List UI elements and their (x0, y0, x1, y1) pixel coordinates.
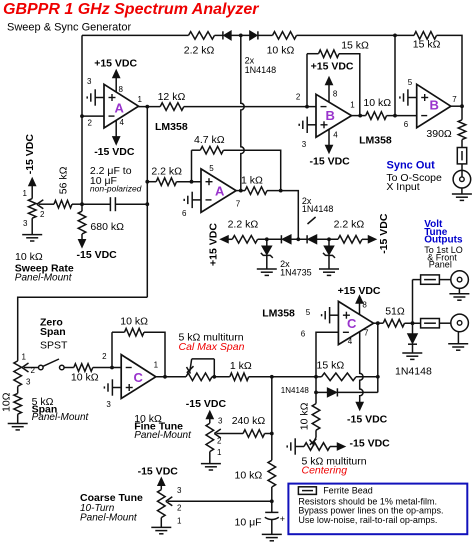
svg-text:4.7 kΩ: 4.7 kΩ (194, 134, 225, 146)
wire A1 output to 12k (139, 106, 161, 108)
wire A2 output (236, 190, 245, 192)
svg-text:6: 6 (404, 120, 409, 129)
wire 2.2k to A2 + input (147, 181, 156, 183)
svg-text:12 kΩ: 12 kΩ (158, 91, 186, 103)
ground C1 + input (sideways) (104, 379, 121, 395)
trimmer R cal 5k multiturn (186, 373, 212, 381)
wire bead to BNC (461, 164, 463, 177)
wire bead to lower BNC (439, 322, 450, 324)
svg-text:10 kΩ: 10 kΩ (235, 470, 263, 482)
wire left column from rail to op-amp A input (81, 35, 83, 204)
wire A1 inverting input stub (82, 115, 104, 117)
node A2 output (239, 189, 243, 193)
svg-text:2: 2 (31, 366, 36, 375)
node C2 output leg fb (376, 375, 380, 379)
wire coarse pot ground stub (160, 518, 162, 528)
node B2 output (460, 104, 464, 108)
resistor 10&#937; (17, 386, 19, 393)
node zener 1 tap (265, 237, 269, 241)
op-amp U3B LM358 C2 (338, 301, 373, 344)
svg-text:3: 3 (302, 140, 307, 149)
switch S1 SPST (39, 359, 65, 370)
capacitor C2 10uF polarized (265, 511, 278, 513)
wire 12k to B1 inverting input (184, 106, 316, 108)
ground zener 1 (257, 269, 277, 275)
svg-text:1N4735: 1N4735 (280, 267, 312, 277)
wire upper BNC ground stub (458, 288, 460, 293)
svg-text:LM358: LM358 (155, 121, 188, 133)
svg-text:Panel-Mount: Panel-Mount (15, 273, 73, 284)
svg-text:10Ω: 10Ω (1, 392, 13, 412)
wire centering -15 arrow (330, 443, 345, 449)
ground output diode (402, 353, 422, 359)
svg-text:2: 2 (217, 436, 222, 445)
wire B2 output down (461, 106, 463, 120)
svg-text:1N4148: 1N4148 (395, 366, 432, 378)
wire 10k to B2 inverting input (387, 115, 417, 117)
op-amp U2B LM358 B2 (417, 84, 451, 127)
wire B1 output to 10k (352, 115, 366, 117)
wire A1-output column to span pot (18, 297, 148, 361)
svg-text:-15 VDC: -15 VDC (186, 398, 227, 410)
resistor 4.7 k&#937; A2 feedback (200, 146, 223, 154)
ferrite bead legend symbol (298, 487, 316, 495)
svg-text:LM358: LM358 (359, 135, 392, 147)
wire C1 output (156, 376, 186, 378)
ground 10uF (262, 534, 282, 540)
wire 51 to out node (405, 322, 421, 324)
svg-text:C: C (134, 370, 144, 385)
resistor 2.2 k&#937; clamp left (232, 236, 257, 244)
resistor 10 k&#937; above cap (268, 460, 276, 487)
wire C2 output to 51 (374, 322, 384, 324)
svg-text:+15 VDC: +15 VDC (311, 61, 354, 73)
wire A1 +15 supply arrow (113, 71, 119, 93)
op-amp U3A LM358 C1 (121, 355, 156, 399)
ground sweep pot (22, 235, 42, 241)
wire 1N4148 pointer (308, 217, 316, 224)
wire C2 +15 supply arrow (356, 296, 362, 314)
node C1 inverting input (110, 366, 114, 370)
svg-text:10 kΩ: 10 kΩ (267, 45, 295, 57)
node cap/coarse junction (270, 499, 274, 503)
resistor 240 k&#937; (243, 430, 265, 438)
wire 390 to bead (461, 140, 463, 148)
svg-text:2: 2 (177, 504, 182, 513)
wiper fine pot (214, 429, 243, 438)
wire sweep pot -15 arrow (29, 179, 35, 199)
diode D3 1N4148 (points left) (281, 235, 290, 243)
svg-text:non-polarized: non-polarized (90, 184, 142, 194)
svg-text:5: 5 (408, 78, 413, 87)
wire diode to 10k (258, 34, 272, 36)
svg-text:+: + (280, 514, 285, 524)
wire A2 feedback left (192, 149, 201, 151)
svg-text:7: 7 (452, 95, 457, 104)
wire B1 feedback left vertical (306, 54, 308, 107)
node volt out (411, 321, 415, 325)
svg-text:3: 3 (218, 416, 223, 425)
wiper sweep pot (37, 200, 54, 209)
svg-text:15 kΩ: 15 kΩ (341, 39, 369, 51)
svg-text:GBPPR 1 GHz Spectrum Analyzer: GBPPR 1 GHz Spectrum Analyzer (3, 1, 259, 18)
wire 240k to column (265, 433, 272, 435)
svg-text:6: 6 (182, 209, 187, 218)
svg-text:-15 VDC: -15 VDC (350, 438, 391, 450)
svg-text:1: 1 (22, 353, 27, 362)
svg-text:56 kΩ: 56 kΩ (58, 166, 70, 194)
node zener 2 tap (327, 237, 331, 241)
diode D2 1N4148 (points right) (250, 31, 258, 39)
svg-text:390Ω: 390Ω (426, 128, 452, 140)
node diode junction (239, 34, 243, 38)
svg-text:3: 3 (177, 486, 182, 495)
resistor 2.2 k&#937; A2 input (156, 178, 176, 186)
svg-text:8: 8 (362, 300, 367, 309)
node C1 output (163, 375, 167, 379)
svg-text:3: 3 (87, 77, 92, 86)
ground A2 - input (sideways) (184, 192, 201, 208)
wire node to clamp (281, 191, 299, 240)
svg-text:10 kΩ: 10 kΩ (363, 97, 391, 109)
svg-text:1: 1 (217, 448, 222, 457)
node cal pot right (212, 375, 216, 379)
svg-text:Ferrite Bead: Ferrite Bead (323, 486, 373, 496)
svg-text:1: 1 (138, 95, 143, 104)
svg-text:Panel-Mount: Panel-Mount (134, 430, 192, 441)
svg-text:2: 2 (102, 352, 107, 361)
ground lower BNC (448, 344, 468, 350)
wire 10k to node (297, 34, 396, 36)
op-amp U2B LM358 A2 (201, 169, 236, 213)
connector J1 sync out BNC (453, 170, 471, 188)
node A2 + input (190, 180, 194, 184)
trimmer R centering 5k (304, 443, 330, 451)
svg-text:10 μF: 10 μF (235, 517, 262, 529)
zener Z2 1N4735 (328, 239, 330, 246)
wire 2.2k to diode A (258, 238, 282, 240)
wire fine pot ground stub (209, 452, 211, 464)
resistor 51&#937; (383, 319, 404, 327)
resistor 1 k&#937; A2 output (245, 187, 267, 195)
svg-text:-15 VDC: -15 VDC (138, 465, 179, 477)
wire between diodes (231, 34, 250, 36)
svg-text:15 kΩ: 15 kΩ (317, 360, 345, 372)
svg-text:-15 VDC: -15 VDC (310, 155, 351, 167)
wire 15k feedback right corner (437, 35, 463, 106)
wire B1 feedback top left (307, 53, 319, 55)
wire coarse pot -15 arrow (158, 478, 164, 489)
diode D6 1N4148 output clamp (412, 323, 414, 334)
wire B1 -15 supply arrow (326, 129, 332, 152)
svg-text:Panel-Mount: Panel-Mount (80, 513, 138, 524)
wire B2 output (451, 105, 462, 107)
wire B1 +15 supply arrow (326, 78, 332, 103)
svg-text:-15 VDC: -15 VDC (94, 146, 135, 158)
wire 10k to C1 inverting input (93, 367, 121, 369)
svg-text:-15 VDC: -15 VDC (347, 414, 388, 426)
wire fine pot -15 arrow (207, 412, 213, 424)
svg-text:5: 5 (209, 164, 214, 173)
wire volt node column (271, 377, 273, 461)
wire C1 feedback top left (112, 331, 125, 333)
resistor 2.2 k&#937; top rail (189, 32, 215, 40)
ground upper BNC (449, 294, 469, 300)
svg-text:2: 2 (40, 210, 45, 219)
wire A2 feedback vertical (191, 150, 193, 182)
ground span (8, 424, 28, 430)
node B2 inverting input tap (393, 114, 397, 118)
node cap row left (80, 202, 84, 206)
svg-text:1: 1 (154, 360, 159, 369)
svg-text:7: 7 (236, 199, 241, 208)
capacitor C1 non-polarized (109, 197, 111, 211)
resistor 10 k&#937; zero span (74, 364, 93, 372)
resistor 2.2 k&#937; clamp right (338, 236, 362, 244)
wire center column (diode node to A2 output) with hops (241, 35, 244, 190)
svg-text:1 kΩ: 1 kΩ (230, 360, 252, 372)
svg-text:680 kΩ: 680 kΩ (90, 221, 124, 233)
ground sync BNC (452, 194, 472, 200)
ground fine pot (201, 464, 221, 470)
wire node to cap (82, 203, 110, 205)
svg-text:1N4148: 1N4148 (302, 204, 334, 214)
svg-text:2: 2 (88, 119, 93, 128)
wire C2 output leg (377, 323, 379, 392)
svg-text:LM358: LM358 (262, 308, 295, 320)
ground zener 2 (319, 269, 339, 275)
ground B1 + input (sideways) (299, 117, 316, 133)
potentiometer R fine 10k (206, 423, 214, 451)
svg-text:1N4148: 1N4148 (281, 386, 310, 395)
node C2 input tap (314, 375, 318, 379)
resistor 390&#937; (458, 120, 466, 140)
wiper coarse pot (166, 497, 272, 506)
svg-text:2.2 kΩ: 2.2 kΩ (151, 165, 182, 177)
svg-text:Panel: Panel (429, 259, 452, 269)
wire A1 output column down (146, 107, 148, 298)
svg-text:10 kΩ: 10 kΩ (299, 402, 311, 430)
svg-text:1: 1 (177, 517, 182, 526)
svg-text:X Input: X Input (386, 181, 419, 193)
op-amp U1A LM358 (104, 84, 139, 128)
svg-text:3: 3 (26, 378, 31, 387)
wire top rail left segment (82, 34, 189, 36)
wire 56k to node (72, 203, 82, 205)
resistor 10 k&#937; top rail (273, 32, 297, 40)
wire 1k to node (267, 190, 281, 192)
resistor 15 k&#937; C2 feedback (316, 376, 322, 378)
wire 10k to cap node (271, 487, 273, 512)
wire between clamp diodes (291, 238, 307, 240)
ferrite bead FB3 lower (421, 319, 440, 328)
svg-text:10 kΩ: 10 kΩ (71, 372, 99, 384)
svg-text:B: B (430, 98, 439, 113)
svg-text:+15 VDC: +15 VDC (94, 58, 137, 70)
svg-text:-15 VDC: -15 VDC (378, 213, 390, 254)
svg-text:-15 VDC: -15 VDC (77, 249, 118, 261)
diode D5 1N4148 C2 feedback (316, 391, 328, 393)
node top rail B2 feedback tap (393, 34, 397, 38)
wire switch to 10k (64, 367, 74, 369)
wire cal pot to 1k (212, 376, 230, 378)
resistor 15 k&#937; B2 feedback (414, 32, 437, 40)
node clamp center (296, 237, 300, 241)
svg-text:8: 8 (119, 85, 124, 94)
svg-text:Sweep & Sync Generator: Sweep & Sync Generator (7, 22, 131, 34)
wire rail to diode (215, 34, 223, 36)
svg-text:Centering: Centering (302, 465, 348, 477)
node A1 output (145, 105, 149, 109)
resistor 10 k&#937; C1 feedback (125, 328, 145, 336)
wire 1k to main node (249, 376, 316, 378)
svg-text:10 kΩ: 10 kΩ (120, 316, 148, 328)
wire bead to upper BNC (439, 279, 450, 281)
ground coarse pot (151, 527, 171, 533)
diode D4 1N4148 (points left) (307, 235, 316, 243)
connector J3 volt tune BNC lower (451, 314, 469, 332)
svg-text:2.2 kΩ: 2.2 kΩ (334, 219, 365, 231)
svg-text:1: 1 (350, 100, 355, 109)
wire -15 VDC clamp arrow (362, 236, 376, 242)
ferrite bead FB2 upper (421, 275, 440, 284)
svg-text:6: 6 (301, 330, 306, 339)
wire BNC to ground (461, 188, 463, 194)
node cap row tap (145, 202, 149, 206)
potentiometer R span 5k (14, 361, 22, 387)
wire lower BNC ground stub (457, 332, 459, 344)
wire B2 feedback vertical (394, 35, 396, 115)
svg-text:C: C (347, 316, 357, 331)
node main volt node (270, 375, 274, 379)
node 2.2k tap (145, 180, 149, 184)
resistor 10 k&#937; B1-B2 (366, 112, 387, 120)
svg-text:240 kΩ: 240 kΩ (232, 415, 266, 427)
resistor 680 k&#937; (81, 204, 83, 211)
wire C2 -15 pin4 line with hops (360, 332, 363, 404)
op-amp U2A LM358 B1 (316, 94, 352, 137)
svg-text:7: 7 (364, 328, 369, 337)
svg-text:4: 4 (120, 118, 125, 127)
svg-text:Sync Out: Sync Out (387, 159, 436, 171)
svg-text:10 kΩ: 10 kΩ (15, 251, 43, 263)
ground A1 + input (sideways) (87, 89, 104, 105)
svg-text:-15 VDC: -15 VDC (24, 134, 36, 175)
svg-text:2: 2 (296, 93, 301, 102)
wire sweep pot to ground (31, 218, 33, 234)
node B1 output (358, 114, 362, 118)
node A2 1k junction (279, 189, 283, 193)
node C2 output (376, 321, 380, 325)
svg-text:3: 3 (23, 219, 28, 228)
notes box (288, 484, 467, 535)
zener Z1 1N4735 (266, 239, 268, 246)
wire volt out up branch (412, 280, 414, 324)
wire cap to column (115, 203, 147, 205)
svg-text:A: A (215, 184, 225, 199)
ferrite bead FB1 (457, 148, 466, 164)
svg-text:1 kΩ: 1 kΩ (241, 175, 263, 187)
ground centering (sideways) (287, 438, 304, 454)
resistor 10 k&#937; centering (312, 404, 320, 431)
ground B2 + input (sideways) (400, 89, 417, 105)
svg-text:3: 3 (106, 400, 111, 409)
wire diode B to 2.2k (317, 238, 339, 240)
svg-text:4: 4 (348, 337, 353, 346)
resistor 1 k&#937; C1 out (230, 373, 249, 381)
potentiometer R sweep 10k (28, 199, 36, 219)
svg-text:2x: 2x (245, 56, 255, 66)
svg-text:+15 VDC: +15 VDC (207, 223, 219, 266)
diode D1 1N4148 (points left) (223, 31, 231, 39)
svg-text:Panel-Mount: Panel-Mount (32, 412, 90, 423)
svg-text:Use low-noise, rail-to-rail op: Use low-noise, rail-to-rail op-amps. (298, 515, 437, 525)
node A1 inverting input (80, 114, 84, 118)
wire 10k to centering wiper (315, 430, 317, 437)
wire +15 VDC clamp arrow (221, 236, 232, 242)
connector J2 volt tune BNC upper (451, 271, 469, 289)
wire A2 feedback right (223, 150, 280, 190)
potentiometer R coarse 10k (158, 490, 166, 518)
resistor 56 k&#937; (54, 200, 72, 208)
wire C1 feedback left vertical (111, 332, 113, 367)
wire 680k -15 arrow (79, 234, 85, 247)
svg-text:15 kΩ: 15 kΩ (413, 39, 441, 51)
wire C2 inverting input corner (316, 332, 338, 403)
svg-text:2.2 kΩ: 2.2 kΩ (228, 219, 259, 231)
svg-text:Cal Max Span: Cal Max Span (179, 341, 245, 353)
node B1 feedback tap (305, 105, 309, 109)
wiper span pot (22, 363, 39, 372)
svg-text:Span: Span (40, 326, 66, 338)
wire C1 feedback right (144, 332, 165, 377)
wire 15k to output leg (356, 376, 378, 378)
svg-text:B: B (326, 108, 335, 123)
resistor 12 k&#937; (160, 103, 184, 111)
svg-text:5: 5 (306, 308, 311, 317)
wire node to 15k (395, 34, 414, 36)
svg-text:1N4148: 1N4148 (245, 65, 277, 75)
svg-text:4: 4 (333, 131, 338, 140)
node 240k tap (270, 432, 274, 436)
svg-text:Outputs: Outputs (424, 235, 463, 246)
wire 10ohm to ground (17, 414, 19, 423)
ground C2 + input (sideways) (322, 307, 339, 323)
svg-text:SPST: SPST (40, 340, 68, 352)
svg-text:51Ω: 51Ω (385, 306, 405, 318)
svg-text:2.2 kΩ: 2.2 kΩ (184, 45, 215, 57)
wire B1 feedback top right (339, 54, 360, 116)
svg-text:A: A (115, 101, 125, 116)
wire A1 -15 supply arrow (113, 120, 119, 144)
node diode row left (314, 391, 318, 395)
resistor 15 k&#937; B1 feedback (319, 50, 340, 58)
svg-text:1: 1 (23, 189, 28, 198)
svg-text:8: 8 (333, 89, 338, 98)
